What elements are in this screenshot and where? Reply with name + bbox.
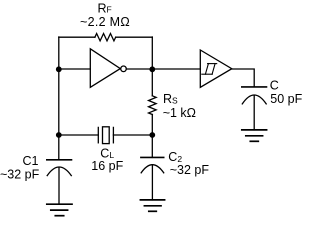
ground (C1) (47, 204, 72, 216)
wire: RS bottom to C2 plate (151, 115, 153, 158)
wire: right rail from output node down to RS (151, 69, 153, 96)
capacitor C top plate (242, 86, 267, 88)
svg-text:~1 kΩ: ~1 kΩ (163, 106, 196, 120)
crystal Y1 body (103, 127, 110, 144)
wire: C2 to ground (151, 165, 153, 200)
capacitor C1 top plate (47, 159, 72, 161)
wire: inverter input (59, 68, 91, 70)
capacitor C curved plate (242, 95, 266, 104)
wire: C to ground (253, 95, 255, 130)
wire: inverter output to Schmitt input (126, 68, 200, 70)
crystal Y1 right plate (112, 127, 114, 142)
wire: right rail top (feedback down to inverter output node) (151, 37, 153, 69)
wire: crystal row right (113, 134, 152, 136)
wire: Schmitt output to capacitor C (232, 69, 254, 86)
svg-text:RF: RF (98, 2, 112, 16)
capacitor C1 curved plate (47, 167, 71, 176)
ground (C) (242, 130, 267, 141)
node: crystal right junction (149, 132, 155, 138)
wire: top feedback left segment (59, 36, 95, 38)
inverter output bubble (121, 66, 127, 72)
node: crystal left junction (56, 132, 62, 138)
svg-text:16 pF: 16 pF (91, 159, 123, 173)
resistor RF (zigzag) (95, 34, 116, 41)
crystal Y1 left plate (97, 127, 99, 142)
ground (C2) (140, 200, 164, 211)
resistor RS (vertical zigzag) (149, 96, 157, 115)
svg-text:~2.2 MΩ: ~2.2 MΩ (80, 15, 130, 29)
svg-text:C: C (270, 78, 279, 92)
Schmitt hysteresis symbol (202, 64, 217, 75)
wire: crystal row left (59, 134, 99, 136)
node: inverter output junction (149, 66, 155, 72)
svg-text:50 pF: 50 pF (270, 92, 302, 106)
svg-text:~32 pF: ~32 pF (170, 163, 210, 177)
wire: C1 to ground (58, 167, 60, 204)
wire: left rail from feedback top to C1 plate (58, 37, 60, 160)
svg-text:C1: C1 (23, 154, 39, 168)
inverter U1 (triangle) (90, 49, 120, 88)
capacitor C2 curved plate (141, 165, 164, 173)
capacitor C2 top plate (141, 156, 164, 158)
node: inverter input junction (56, 66, 62, 72)
Schmitt-trigger buffer U2 (triangle) (200, 50, 232, 87)
wire: top feedback right segment (116, 36, 153, 38)
svg-text:~32 pF: ~32 pF (0, 168, 40, 182)
